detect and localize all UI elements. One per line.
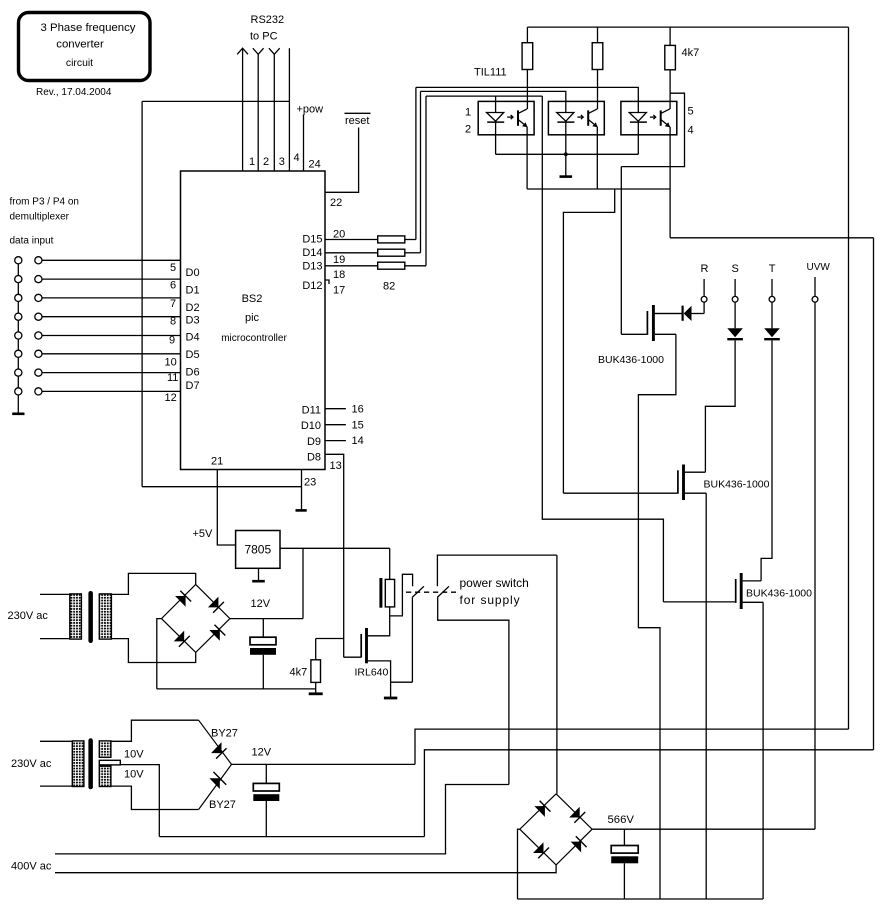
svg-text:pic: pic [245,312,260,324]
wire opto2 cathode down [565,122,567,154]
svg-text:D15: D15 [302,234,322,246]
transistor Q4 IRL640 [360,634,362,657]
svg-text:3 Phase frequency: 3 Phase frequency [41,22,136,34]
wire T2 secondary top [111,720,199,741]
wire to MOSFET Q1 gate vertical [620,167,622,335]
wire left rail to pin 23 ground [142,486,301,488]
svg-text:+5V: +5V [193,528,214,540]
svg-text:D7: D7 [186,380,200,392]
wire PSU2 +12V rail [232,763,416,765]
wire resistor to riser (D13) [405,265,426,267]
wire Q1 gate lead [621,333,646,335]
wire D4 input [42,335,180,337]
wire switch pole 2 bottom [438,597,509,784]
svg-text:D9: D9 [307,436,321,448]
svg-text:power switch: power switch [460,576,529,590]
connector pin pair row 7 (D7) [15,388,22,395]
wire opto3 emitter down [669,127,671,238]
regulator 7805 box [236,531,280,569]
opto U2 phototransistor [587,110,589,125]
wire UVW to DC+ rail [814,302,816,829]
wire RS232 line 2 (RX) [257,54,259,171]
svg-text:4: 4 [688,125,694,137]
microcontroller U1 BS2 pic box [181,171,326,470]
wire D0 input [42,259,180,261]
relay K1 coil [379,578,382,608]
svg-text:R: R [701,263,709,275]
wire RS232 ground to left rail [142,100,289,102]
ground Q4 source [384,697,397,700]
svg-text:BY27: BY27 [209,799,236,811]
svg-text:D6: D6 [186,367,200,379]
svg-text:microcontroller: microcontroller [221,333,287,344]
wire D5 input [42,353,180,355]
connector pin pair row 0 (D0) [15,257,22,264]
svg-text:Rev., 17.04.2004: Rev., 17.04.2004 [36,87,112,98]
svg-text:4k7: 4k7 [682,47,700,59]
diode D6 BY27 lower [199,764,232,809]
wire T1 secondary bottom to bridge [111,639,195,663]
wire Q2 gate lead [563,492,677,494]
svg-text:IRL640: IRL640 [355,667,389,679]
connector pin pair row 6 (D6) [15,369,22,376]
connector pin pair row 3 (D3) [15,313,22,320]
svg-text:1: 1 [249,156,255,168]
diode D-T (T phase) [771,302,773,328]
transistor Q1 BUK436-1000 [646,311,648,335]
wire T2 primary bottom [40,785,72,787]
wire riser D14 up [420,91,422,252]
transformer T1 core [88,591,93,643]
optocoupler U3 TIL111 box [621,101,677,134]
svg-text:82: 82 [383,281,395,293]
diode B1 bottom-left [174,631,185,642]
transistor Q2 BUK436-1000 [677,470,679,494]
wire opto1 collector to resistor [526,70,528,110]
wire B to opto 2 LED [421,91,566,112]
terminal T stub [771,279,773,297]
bridge rectifier B2 diamond [520,794,592,865]
optocoupler U1 TIL111 box [478,101,534,134]
svg-text:to PC: to PC [250,31,278,43]
ground pin 23 [296,509,307,512]
wire T2 primary top [40,740,72,742]
wire gate lead IRL640 [344,656,362,658]
wire 7805 input from bridge [302,548,304,618]
terminal R stub [703,279,705,297]
wire B1 minus to 0V bus [157,619,162,689]
wire Q2 source to common rail [705,493,707,899]
wire T to Q3 drain [761,340,772,581]
wire pole1 to Q4 source [391,681,413,683]
wire branch to opto1 anode [495,96,497,112]
wire opto3 collector to resistor [669,70,671,109]
resistor 82 ohm (D14) [378,249,405,256]
wire emitter bus [527,188,670,190]
svg-text:8: 8 [170,316,176,328]
opto U1 phototransistor [517,110,519,125]
wire 0V feed to supply (hB) [424,750,873,837]
svg-text:reset: reset [345,115,369,127]
wire B1 plus to cap [230,618,303,620]
wire Q1 source to common rail [638,334,676,899]
arrow down line 2 [253,48,264,54]
wire opto2 emitter down [596,127,598,189]
transformer T2 core [88,738,93,789]
svg-text:BS2: BS2 [242,293,263,305]
capacitor C2 12V [265,764,267,783]
svg-text:24: 24 [309,159,321,171]
svg-text:D8: D8 [307,452,321,464]
resistor 82 ohm (D13) [378,262,405,269]
wire S to Q2 drain [705,340,735,472]
wire relay to switch pole 1 [390,574,413,616]
wire D13 to resistor [325,265,378,267]
svg-text:12: 12 [165,392,177,404]
wire LED cathode bus [496,153,639,155]
switch S1 pole 1 blade [412,586,424,597]
svg-text:14: 14 [352,435,364,447]
svg-text:23: 23 [304,477,316,489]
svg-text:6: 6 [170,280,176,292]
wire D6 input [42,372,180,374]
transformer T2 primary winding [72,741,84,787]
svg-text:15: 15 [352,420,364,432]
svg-text:UVW: UVW [807,262,831,273]
wire Q3 gate lead [663,601,735,603]
transistor Q3 BUK436-1000 [735,579,737,603]
svg-text:7805: 7805 [244,543,271,557]
junction cathode bus [564,152,568,156]
wire resistor to riser (D15) [405,239,416,241]
wire 400V phase 1 [55,785,509,854]
svg-text:D12: D12 [302,280,322,292]
wire 400V phase 2 to bridge B2 [55,865,556,873]
wire riser D13 up [425,96,427,266]
wire 4k7 to gate net [316,638,344,640]
wire Q4 drain to relay [368,607,390,636]
arrow down line 3 [269,48,280,54]
opto U2 LED [557,113,574,122]
capacitor C1 12V [262,619,264,638]
svg-text:11: 11 [167,372,178,384]
resistor 4k7 (opto2 load) [597,27,599,43]
svg-text:circuit: circuit [66,58,93,69]
switch linkage dashed [406,591,456,593]
opto U1 LED [487,113,504,122]
wire +pow to pin 24 [303,115,305,172]
svg-text:16: 16 [352,404,364,416]
wire pole 2 to bridge B2 [556,555,558,794]
svg-text:18: 18 [333,269,345,281]
svg-text:10V: 10V [124,769,144,781]
wire A to opto 3 LED [416,87,638,112]
wire +12V top rail [527,26,848,28]
wire opto3 cathode down [637,122,639,154]
wire pin D9 stub [325,440,346,442]
svg-text:230V ac: 230V ac [11,758,52,770]
resistor 4k7 (gate pulldown) [315,639,317,660]
svg-text:13: 13 [330,460,342,472]
svg-text:230V ac: 230V ac [8,610,49,622]
wire common negative rail [518,898,764,900]
svg-text:5: 5 [688,106,694,118]
capacitor C3 566V [623,829,625,845]
title box [19,13,151,81]
svg-text:BUK436-1000: BUK436-1000 [598,354,664,366]
svg-text:BY27: BY27 [211,728,238,740]
terminal UVW circle [812,296,818,302]
wire +12V feed from supply (hA) [415,729,849,764]
wire riser D15 up [415,87,417,239]
wire D15 to resistor [325,239,378,241]
wire pin D10 stub [325,424,346,426]
diode D-S (S phase) [734,302,736,328]
wire B2 plus rail (DC bus) [592,828,815,830]
svg-text:D4: D4 [186,332,200,344]
svg-text:RS232: RS232 [251,14,285,26]
svg-text:12V: 12V [252,747,272,759]
svg-text:S: S [732,263,739,275]
diode B1 top-right [208,597,219,608]
wire RS232 line 4 (ground) [288,48,290,171]
svg-text:10V: 10V [124,749,144,761]
wire C to opto 1 LED [426,95,542,97]
wire Q4 source [368,661,391,697]
opto U3 LED [629,113,646,122]
svg-text:7: 7 [170,298,176,310]
svg-text:17: 17 [333,285,345,297]
svg-text:D2: D2 [186,302,200,314]
svg-text:D14: D14 [302,247,322,259]
svg-text:20: 20 [333,229,345,241]
connector pin pair row 1 (D1) [15,276,22,283]
wire T2 secondary bottom [111,786,199,809]
wire pin 23 to ground [301,470,303,510]
wire branch to MOSFET Q2 gate [563,189,614,493]
terminal S stub [734,279,736,297]
wire emitter bus extension right [670,237,873,239]
svg-text:for supply: for supply [460,593,521,607]
wire opto1 emitter down [526,127,528,189]
diode B2 top-right [569,807,580,818]
wire D3 input [42,316,180,318]
svg-text:+pow: +pow [297,104,324,116]
diode B2 bottom-left [533,842,544,853]
diode B2 top-left [534,806,545,817]
wire resistor to riser (D14) [405,252,421,254]
wire switch pole 2 top [437,555,557,586]
terminal R circle [701,296,707,302]
terminal S circle [732,296,738,302]
wire Q3 source to common rail [762,602,764,899]
wire relay coil top to +5V rail [389,548,391,579]
wire D14 to resistor [325,252,378,254]
svg-text:D10: D10 [301,420,321,432]
resistor 4k7 (opto1 load) [526,27,528,43]
wire pin 21 to 7805 output [217,470,235,546]
diode D5 BY27 upper [199,720,232,764]
svg-text:BUK436-1000: BUK436-1000 [704,479,770,491]
wire T2 center tap to 0V [120,765,159,837]
svg-text:BUK436-1000: BUK436-1000 [746,588,812,600]
svg-text:400V ac: 400V ac [11,861,52,873]
terminal T circle [769,296,775,302]
wire T1 primary top [40,593,70,595]
wire RS232 line 3 [273,54,275,171]
wire R diode to Q1 drain [655,313,683,315]
wire D8 (pin 13) down to IRL640 gate [325,454,344,657]
wire pin D11 stub [325,408,346,410]
ground 7805 [258,568,260,581]
opto U3 light arrow [650,116,656,118]
wire T1 primary bottom [40,638,70,640]
connector pin pair row 5 (D5) [15,350,22,357]
wire D13 net down [542,96,663,602]
svg-text:TIL111: TIL111 [474,67,507,79]
svg-text:D13: D13 [302,261,322,273]
bridge rectifier B1 diamond [162,584,230,652]
transformer T1 primary winding [70,594,82,639]
svg-text:data input: data input [10,236,54,247]
svg-text:converter: converter [56,39,104,51]
svg-text:2: 2 [465,124,471,136]
svg-text:4: 4 [294,152,300,164]
wire T1 secondary top to bridge [111,573,195,594]
svg-text:from P3 / P4 on: from P3 / P4 on [10,197,79,208]
connector pin pair row 2 (D2) [15,294,22,301]
svg-text:1: 1 [465,107,471,119]
opto U2 light arrow [577,116,583,118]
terminal UVW stub [814,277,816,297]
wire D7 input [42,390,180,392]
wire opto2 collector to resistor [597,70,599,110]
svg-text:5: 5 [170,262,176,274]
svg-text:D1: D1 [186,285,200,297]
svg-text:566V: 566V [608,814,635,826]
connector common rail [17,260,19,410]
svg-text:21: 21 [211,456,223,468]
svg-text:3: 3 [279,156,285,168]
wire B2 minus to common rail [518,829,520,899]
svg-text:9: 9 [169,335,175,347]
svg-text:19: 19 [333,254,345,266]
wire 0V right bus down [873,238,875,750]
svg-text:D11: D11 [302,405,321,417]
opto U1 light arrow [507,116,513,118]
svg-text:D3: D3 [186,315,200,327]
transformer T2 secondary lower winding [99,766,111,786]
diode B2 bottom-right [571,842,582,853]
wire D1 input [42,278,180,280]
wire RS232 line 1 (TX) [242,49,244,172]
svg-text:D5: D5 [186,349,200,361]
svg-text:T: T [769,263,776,275]
diode B1 bottom-right [209,630,220,641]
wire PSU2 0V rail [159,836,424,838]
svg-text:4k7: 4k7 [290,667,308,679]
svg-text:10: 10 [165,357,177,369]
svg-text:12V: 12V [251,598,271,610]
pin 17 stub [325,280,329,284]
diode B1 top-left [175,596,186,607]
transformer T1 secondary winding [99,594,111,639]
wire reset to pin 22 [325,128,359,193]
wire PSU1 0V bus [157,688,316,690]
wire left rail vertical [141,101,143,486]
wire opto1 cathode down [495,122,497,154]
svg-text:22: 22 [330,197,342,209]
wire D2 input [42,297,180,299]
resistor 4k7 (opto3 load) [669,27,671,45]
svg-text:demultiplexer: demultiplexer [10,212,70,223]
resistor 82 ohm (D15) [378,236,405,243]
svg-text:D0: D0 [186,267,200,279]
wire opto3 pin5 bracket [621,93,684,166]
arrow up line 1 [237,48,248,54]
wire 7805 output right [280,547,390,549]
ground for connector [12,412,24,415]
transformer T2 secondary upper winding [99,741,111,757]
svg-text:2: 2 [263,156,269,168]
ground cathode bus [565,154,567,176]
diode D-R (R phase) [692,313,705,315]
ground 4k7 [315,682,317,693]
connector pin pair row 4 (D4) [15,332,22,339]
optocoupler U2 TIL111 box [548,101,604,134]
transformer T2 center tap [99,760,120,765]
switch S1 pole 2 blade [437,586,449,597]
opto U3 phototransistor [660,110,662,125]
wire switch pole 1 bottom [411,597,413,682]
wire +12V right bus down [848,27,850,729]
